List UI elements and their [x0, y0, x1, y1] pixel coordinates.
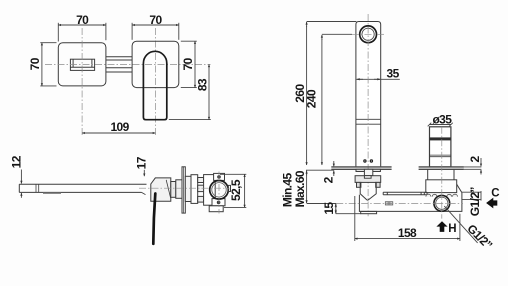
svg-text:C: C	[491, 188, 499, 200]
dimension 70 right (handle plate height)	[181, 41, 197, 87]
dimension 2 right (wall plate thickness)	[464, 156, 482, 175]
wall line right span	[419, 167, 464, 169]
horizontal centerline through front view	[45, 63, 211, 65]
lever handle (front view, bold outline)	[143, 51, 166, 119]
connecting tube between plates (front view)	[106, 57, 132, 72]
cartridge circle rear view (bold)	[434, 195, 450, 211]
svg-text:52,5: 52,5	[229, 179, 243, 201]
dimension 70 top-left (wall plate width)	[58, 13, 106, 42]
svg-text:Max.60: Max.60	[293, 170, 307, 207]
svg-text:2: 2	[321, 176, 335, 183]
svg-text:12: 12	[10, 155, 24, 168]
elbow flange plate	[355, 176, 381, 183]
vertical centerline left plate	[81, 28, 83, 135]
wall line left span	[331, 167, 391, 169]
svg-text:17: 17	[134, 156, 148, 169]
dimension 35 (column width)	[356, 67, 400, 81]
valve body (side view)	[151, 178, 171, 201]
dimension 17 (body step)	[134, 156, 148, 176]
handle wall plate (front view, rounded square)	[132, 41, 179, 87]
cartridge column ø35 (elevation)	[430, 127, 451, 167]
dimension line ø35 with oblique ticks	[428, 123, 453, 127]
svg-text:G1/2”: G1/2”	[468, 187, 482, 217]
flange scallops	[426, 194, 458, 196]
svg-text:70: 70	[149, 13, 162, 27]
small tab right of cartridge circle	[228, 185, 230, 191]
small fitting on centerline	[385, 202, 393, 205]
dimension 70 top-right (handle plate width)	[132, 13, 179, 40]
flange screw lugs	[357, 182, 381, 187]
dimension 12 (spout thickness)	[10, 155, 24, 197]
dimension 70 left (plate height)	[28, 43, 57, 86]
spout column (plan view)	[356, 22, 381, 167]
dimension 83 (center axis to lever bottom)	[169, 64, 211, 119]
dimension 158 (body length)	[355, 196, 460, 241]
svg-text:109: 109	[110, 120, 129, 134]
dimension 109 (plate centre distance)	[82, 120, 155, 134]
spout column vertical centerline	[367, 14, 369, 216]
svg-text:35: 35	[387, 67, 400, 81]
rough-in body outline	[359, 184, 462, 211]
svg-text:83: 83	[195, 78, 209, 91]
bottom screw boss and foot (side view)	[209, 199, 225, 212]
spout wall plate (front view, rounded square)	[58, 43, 106, 86]
C inlet port lines	[462, 191, 481, 201]
cartridge column neck below wall	[428, 169, 454, 180]
column fixing screws	[363, 159, 373, 162]
svg-text:70: 70	[28, 57, 42, 70]
svg-text:H: H	[448, 223, 456, 235]
spout (side view, long thin profile)	[19, 184, 146, 194]
elbow (U shape)	[360, 182, 376, 200]
spout outlet aperture on left plate	[70, 59, 94, 70]
side view cartridge vertical centerline	[218, 172, 220, 214]
vertical centerline right plate / handle	[154, 28, 156, 135]
svg-text:15: 15	[322, 202, 336, 215]
body horizontal centerline	[307, 203, 463, 205]
cartridge column box	[426, 180, 457, 193]
cartridge housing steps (side view)	[185, 175, 215, 206]
aerator horizontal centerline	[352, 33, 385, 35]
aerator ring (plan view, bold)	[360, 26, 377, 43]
cold inlet arrow C	[486, 188, 499, 209]
lever handle (side view, solid black)	[153, 194, 155, 244]
dimension line 260 / Min-Max (vertical master line)	[306, 22, 308, 203]
top screw boss (side view)	[214, 173, 225, 180]
svg-text:158: 158	[398, 226, 417, 240]
dimension 15 (centerline to foot)	[322, 202, 361, 215]
extension line plate bottom (Min-Max ref)	[306, 169, 334, 171]
extension line spout top (260)	[307, 21, 357, 23]
cartridge column vertical centerline	[441, 127, 443, 219]
hot inlet arrow H	[436, 221, 456, 235]
cartridge circle (side view, bold)	[210, 181, 229, 200]
connecting pipe inside body	[383, 192, 427, 195]
flange bumps under wall	[356, 169, 380, 175]
dimension 52,5 (body height side view)	[220, 174, 246, 207]
body collar blocks (side view)	[171, 180, 182, 199]
dimension 2 left (plate thickness)	[321, 161, 335, 183]
dimension line 240	[321, 35, 323, 165]
extension line aerator centre (240)	[322, 33, 352, 35]
escutcheon plate edge-on (tall thin)	[182, 167, 185, 213]
svg-text:70: 70	[181, 57, 195, 70]
body foot below elbow	[361, 211, 377, 213]
side view horizontal centerline	[139, 187, 230, 189]
svg-text:70: 70	[76, 13, 89, 27]
leader line to G1/2 thread label	[444, 206, 477, 243]
svg-text:2: 2	[468, 156, 482, 163]
